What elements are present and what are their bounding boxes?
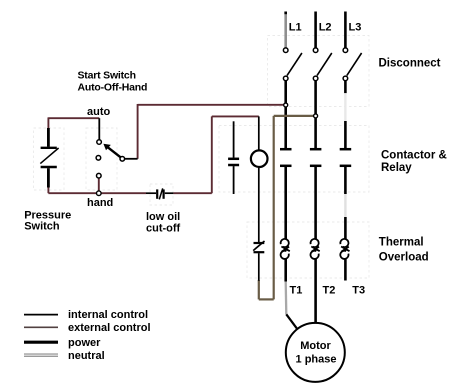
svg-text:1 phase: 1 phase [296, 354, 337, 366]
svg-text:L1: L1 [289, 22, 302, 34]
svg-text:Switch: Switch [24, 221, 60, 233]
svg-text:neutral: neutral [68, 350, 105, 362]
svg-text:Thermal: Thermal [379, 237, 424, 249]
svg-text:Overload: Overload [379, 252, 429, 264]
svg-text:T3: T3 [352, 285, 365, 297]
svg-text:Contactor &: Contactor & [381, 150, 447, 162]
svg-text:power: power [68, 337, 101, 349]
svg-text:Auto-Off-Hand: Auto-Off-Hand [78, 82, 148, 94]
svg-text:T1: T1 [290, 285, 303, 297]
svg-text:Relay: Relay [381, 162, 412, 174]
svg-text:cut-off: cut-off [146, 222, 181, 234]
svg-text:Disconnect: Disconnect [379, 58, 441, 70]
svg-text:L2: L2 [319, 22, 332, 34]
svg-text:T2: T2 [323, 285, 336, 297]
svg-text:auto: auto [87, 106, 111, 118]
svg-text:external control: external control [68, 322, 151, 334]
svg-text:internal control: internal control [68, 309, 148, 321]
svg-text:Start Switch: Start Switch [78, 70, 136, 82]
svg-text:Motor: Motor [300, 340, 331, 352]
svg-text:low oil: low oil [146, 211, 180, 223]
svg-text:hand: hand [87, 197, 113, 209]
svg-text:L3: L3 [349, 22, 362, 34]
